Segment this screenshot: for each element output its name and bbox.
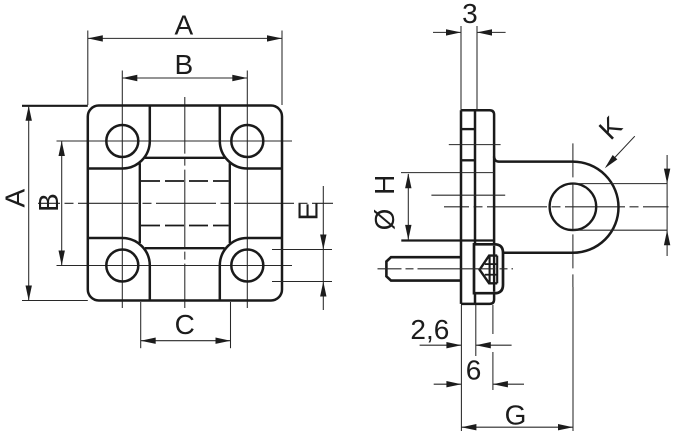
- svg-text:G: G: [505, 399, 527, 430]
- svg-text:Ø H: Ø H: [369, 172, 400, 231]
- svg-text:A: A: [175, 9, 194, 40]
- svg-text:A: A: [0, 188, 31, 207]
- svg-text:6: 6: [466, 355, 482, 386]
- svg-text:3: 3: [462, 0, 478, 29]
- svg-text:E: E: [292, 202, 323, 221]
- svg-text:2,6: 2,6: [410, 314, 449, 345]
- svg-text:B: B: [175, 49, 194, 80]
- svg-text:C: C: [175, 309, 195, 340]
- svg-text:B: B: [33, 193, 64, 212]
